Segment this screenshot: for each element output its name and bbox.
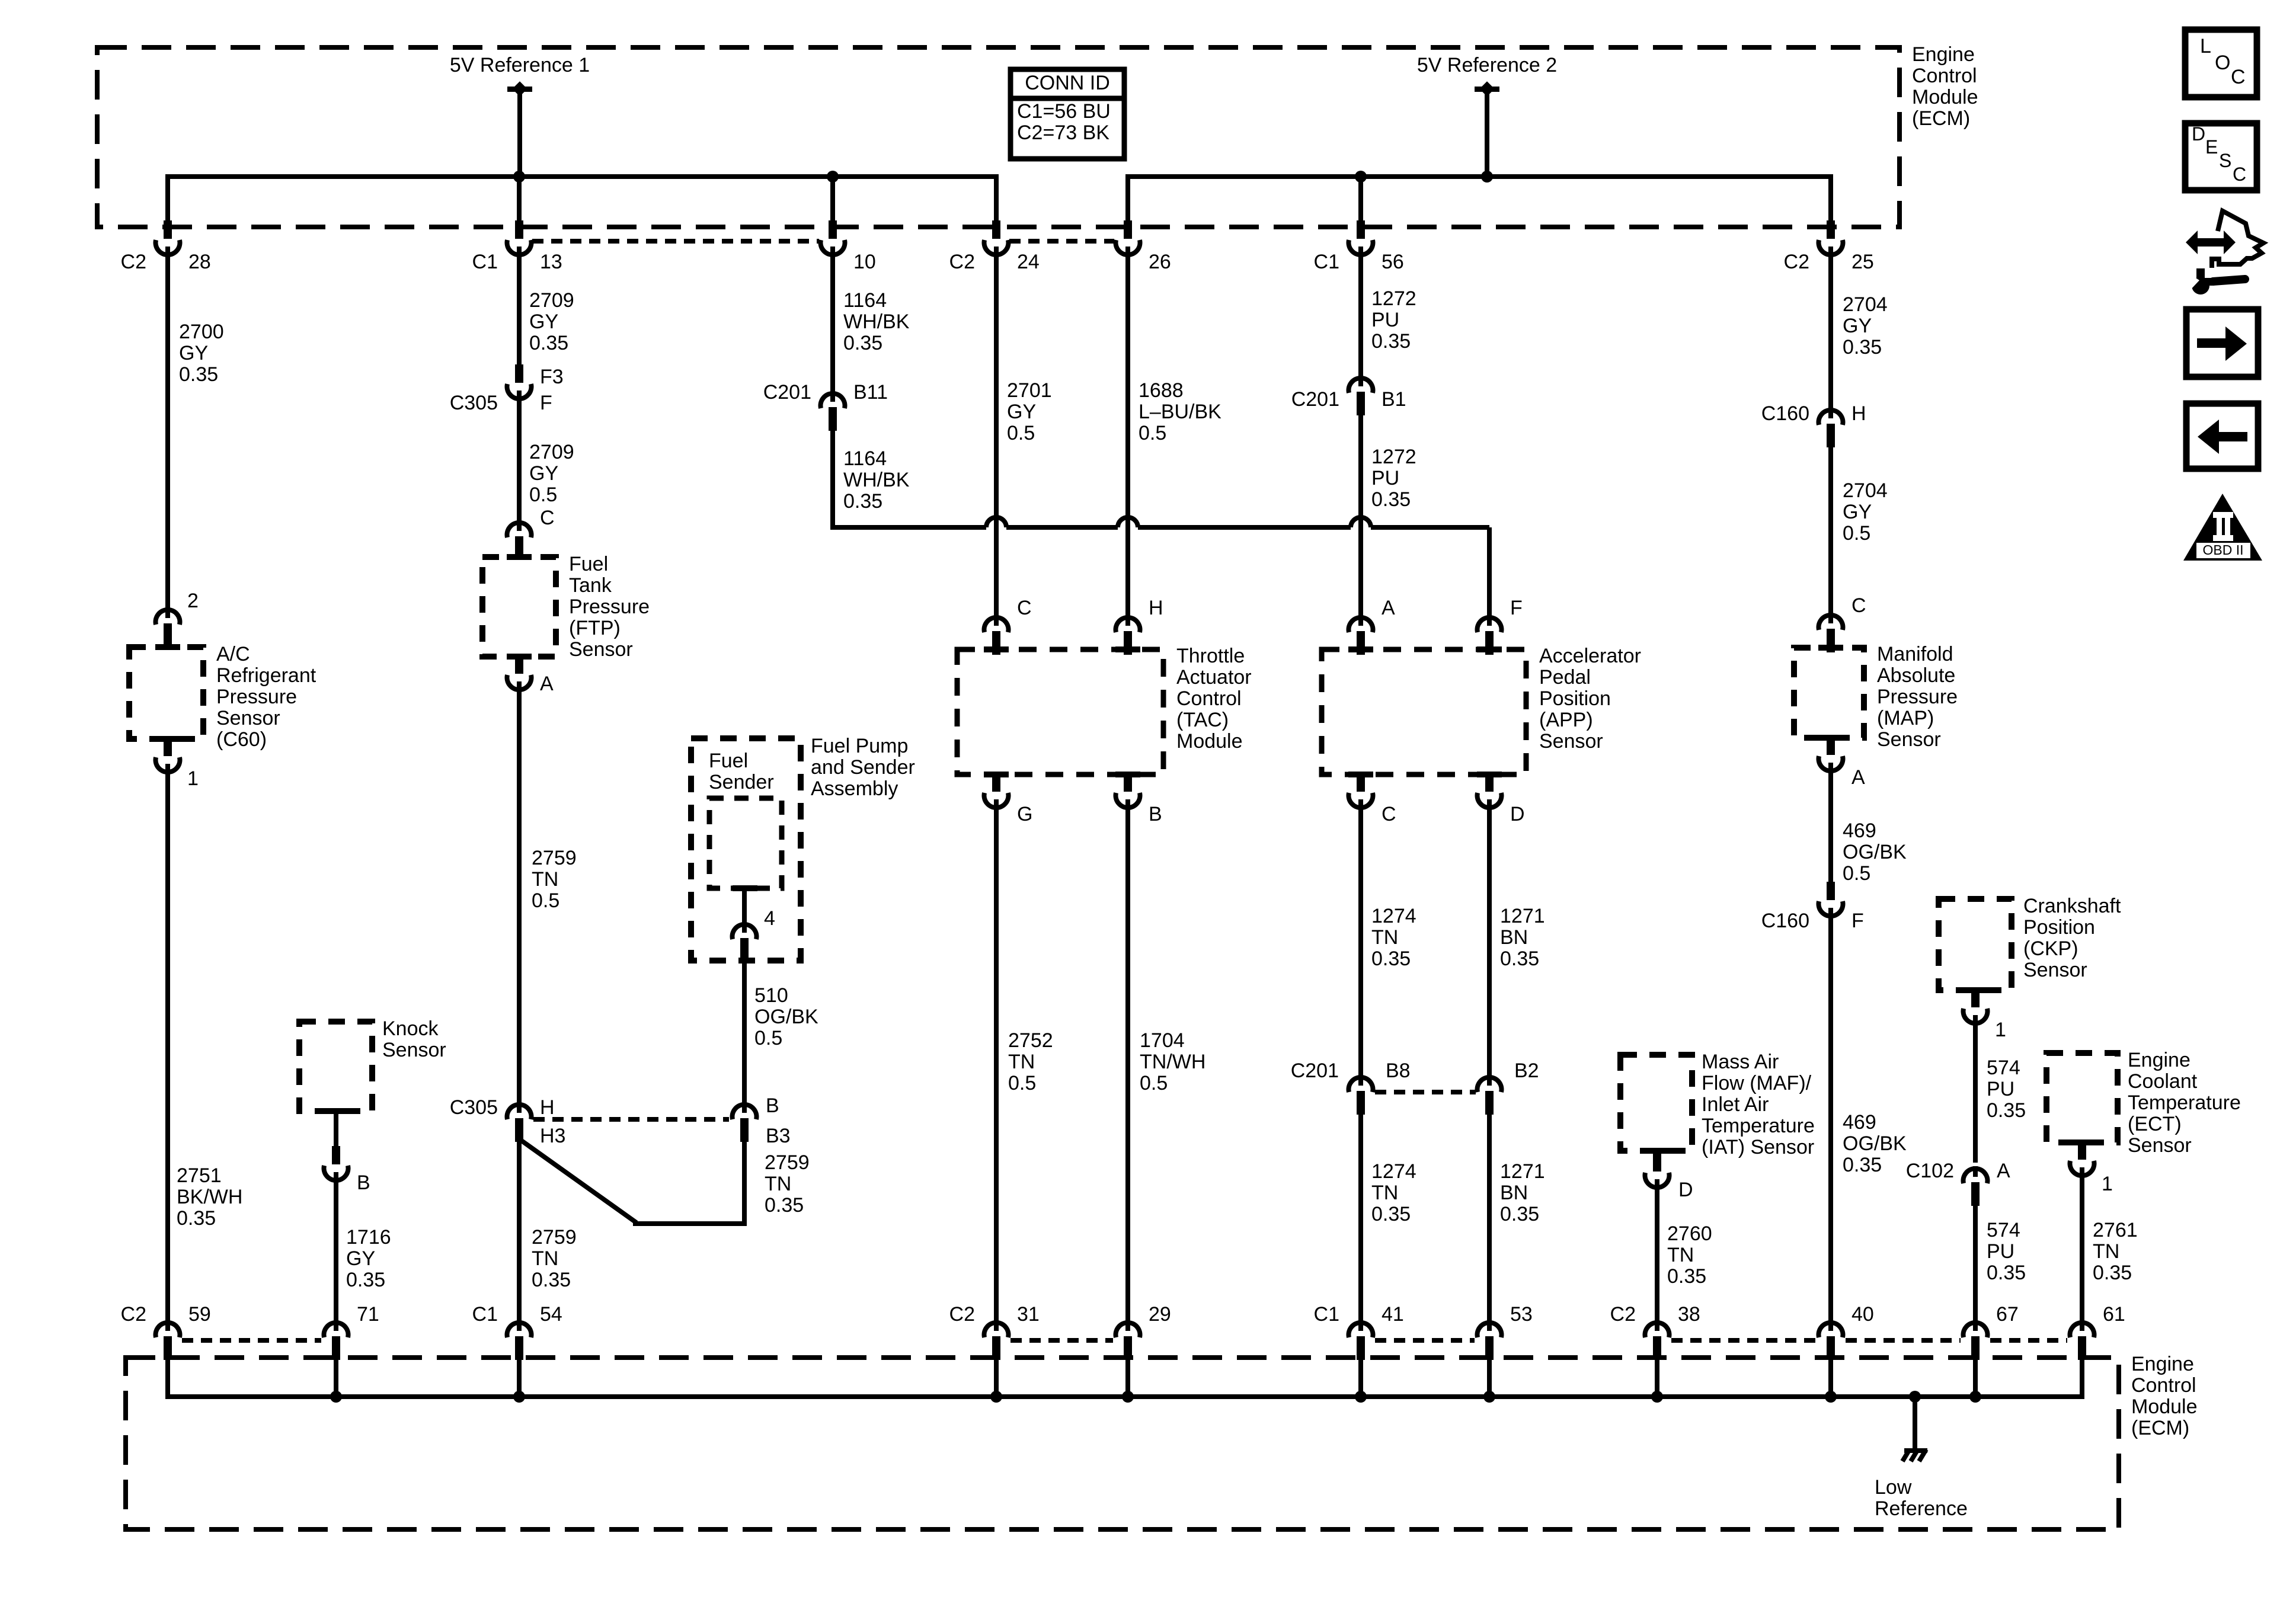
- svg-text:31: 31: [1017, 1303, 1040, 1326]
- ECM pin 61: [2070, 1303, 2125, 1397]
- svg-text:0.35: 0.35: [1667, 1265, 1706, 1288]
- ECM pin 10: [821, 220, 876, 273]
- svg-text:(C60): (C60): [216, 728, 267, 751]
- wire 1704 TN/WH TAC pin B to ECM pin 29: [1125, 805, 1130, 1327]
- svg-text:D: D: [1678, 1179, 1693, 1201]
- svg-text:0.5: 0.5: [1140, 1072, 1168, 1094]
- wire 2709 GY ECM pin 13 to C305: [517, 252, 522, 369]
- svg-text:2704: 2704: [1843, 293, 1888, 316]
- svg-text:A/C: A/C: [216, 643, 250, 665]
- Fuel Sender inner box: [709, 798, 782, 891]
- svg-text:0.35: 0.35: [1371, 330, 1411, 353]
- svg-text:Reference: Reference: [1875, 1497, 1968, 1520]
- label Fuel Sender: [709, 750, 774, 793]
- svg-text:C160: C160: [1761, 910, 1809, 932]
- svg-text:TN: TN: [2093, 1240, 2119, 1263]
- label Engine Control Module (ECM) top: [1912, 43, 1978, 130]
- connector group line pins 24-26: [1009, 239, 1114, 244]
- wire 1164 WH/BK C201 to APP sensor pin F: [833, 424, 1489, 620]
- TAC module pin C: [984, 597, 1032, 655]
- svg-text:Pressure: Pressure: [569, 596, 650, 618]
- svg-text:24: 24: [1017, 251, 1040, 273]
- svg-text:D: D: [1510, 803, 1525, 825]
- svg-text:(FTP): (FTP): [569, 617, 621, 639]
- wire knock sensor to pin B: [334, 1111, 338, 1153]
- wire bus to ECM pin: [165, 177, 170, 224]
- node 5V Reference 2: [1417, 54, 1557, 97]
- svg-text:E: E: [2205, 136, 2218, 158]
- wire 1274 TN APP pin C to C201 B8: [1358, 805, 1363, 1077]
- svg-text:TN: TN: [532, 1247, 558, 1270]
- svg-text:510: 510: [754, 984, 788, 1007]
- svg-text:OG/BK: OG/BK: [754, 1006, 818, 1028]
- svg-text:0.35: 0.35: [532, 1269, 571, 1291]
- label wire 510 OG/BK 0.5: [754, 984, 818, 1049]
- svg-text:Engine: Engine: [1912, 43, 1975, 66]
- wire branch H3 to fuel sender B3 (diagonal): [522, 1137, 744, 1224]
- svg-text:C2=73 BK: C2=73 BK: [1017, 121, 1109, 144]
- svg-text:0.35: 0.35: [1843, 1154, 1882, 1176]
- wire 2704 GY C160 to MAP pin C: [1828, 440, 1833, 618]
- wire fuel sender to pin 4: [742, 888, 747, 926]
- label wire 1271 BN 0.35 (upper): [1500, 905, 1545, 970]
- label wire 2759 TN 0.5: [532, 847, 577, 912]
- svg-text:A: A: [1851, 766, 1865, 789]
- svg-text:Module: Module: [1912, 86, 1978, 108]
- svg-text:C201: C201: [1291, 388, 1339, 411]
- svg-text:0.35: 0.35: [2093, 1262, 2132, 1284]
- svg-text:1274: 1274: [1371, 1160, 1416, 1183]
- label wire 574 PU 0.35 (lower): [1987, 1219, 2026, 1284]
- label wire 2759 TN 0.35 (fuel sender branch): [765, 1151, 810, 1217]
- ECM pin 71: [324, 1303, 379, 1397]
- label wire 1271 BN 0.35 (lower): [1500, 1160, 1545, 1225]
- svg-text:C1: C1: [1314, 1303, 1339, 1326]
- icon LOC box: [2185, 30, 2257, 97]
- Crankshaft Position (CKP) Sensor box: [1939, 899, 2012, 993]
- svg-text:O: O: [2215, 52, 2230, 74]
- svg-text:40: 40: [1851, 1303, 1874, 1326]
- connector group line pins 41-53: [1375, 1338, 1475, 1343]
- svg-text:C2: C2: [949, 1303, 975, 1326]
- svg-text:53: 53: [1510, 1303, 1533, 1326]
- svg-text:574: 574: [1987, 1057, 2020, 1079]
- CONN ID table box: [1011, 69, 1124, 159]
- wire 2759 TN C305 H3 to ECM pin 54: [517, 1135, 522, 1327]
- svg-text:0.5: 0.5: [1139, 422, 1166, 444]
- svg-text:G: G: [1017, 803, 1032, 825]
- wire 5V reference bus 1 (pins 28-13-10-24): [168, 177, 996, 200]
- wire 2759 TN FTP sensor to C305 H: [517, 687, 522, 1103]
- junction low reference bus at pin 71: [330, 1391, 342, 1403]
- APP sensor pin D: [1477, 773, 1524, 825]
- svg-text:C2: C2: [949, 251, 975, 273]
- svg-text:Control: Control: [1912, 65, 1977, 87]
- svg-text:2760: 2760: [1667, 1222, 1712, 1245]
- wire bus to ECM pin: [1125, 177, 1130, 224]
- label Accelerator Pedal Position (APP) Sensor: [1539, 645, 1641, 753]
- junction bus1 at pin 10: [827, 171, 839, 183]
- svg-text:Throttle: Throttle: [1176, 645, 1245, 667]
- connector group line pins 38-40: [1671, 1338, 1816, 1343]
- svg-text:WH/BK: WH/BK: [843, 469, 910, 491]
- svg-text:5V Reference 2: 5V Reference 2: [1417, 54, 1557, 76]
- svg-text:OBD II: OBD II: [2202, 542, 2243, 558]
- junction low reference bus at ground stub: [1909, 1391, 1921, 1403]
- svg-text:C: C: [1382, 803, 1396, 825]
- svg-text:0.35: 0.35: [346, 1269, 385, 1291]
- Engine Coolant Temperature (ECT) Sensor box: [2046, 1053, 2118, 1145]
- svg-text:41: 41: [1382, 1303, 1404, 1326]
- wire 5V reference bus 2 (pins 26-56-25): [1128, 177, 1831, 200]
- APP sensor pin A: [1349, 597, 1396, 655]
- connector group line pins 13-10: [532, 239, 819, 244]
- node 5V Reference 1: [450, 54, 590, 97]
- label wire 2709 GY 0.35: [529, 289, 574, 354]
- svg-text:1164: 1164: [843, 447, 887, 470]
- svg-text:H: H: [540, 1096, 555, 1119]
- label A/C Refrigerant Pressure Sensor (C60): [216, 643, 316, 751]
- label wire 1274 TN 0.35 (lower): [1371, 1160, 1416, 1225]
- label wire 469 OG/BK 0.5: [1843, 820, 1907, 885]
- svg-text:C2: C2: [121, 1303, 146, 1326]
- svg-text:F: F: [1510, 597, 1523, 619]
- svg-text:(APP): (APP): [1539, 709, 1593, 731]
- label wire 1164 WH/BK 0.35 (upper): [843, 289, 910, 354]
- wire 2704 GY ECM pin 25 to C160 H: [1828, 252, 1833, 410]
- svg-text:C: C: [2233, 164, 2246, 185]
- svg-text:(ECM): (ECM): [2131, 1417, 2189, 1439]
- svg-text:Engine: Engine: [2131, 1353, 2194, 1375]
- svg-text:Sensor: Sensor: [1877, 728, 1941, 751]
- svg-text:L: L: [2200, 35, 2211, 57]
- APP sensor pin C: [1349, 773, 1396, 825]
- svg-text:Sensor: Sensor: [1539, 730, 1603, 753]
- svg-text:A: A: [1382, 597, 1395, 619]
- svg-text:54: 54: [540, 1303, 562, 1326]
- svg-text:2761: 2761: [2093, 1219, 2138, 1241]
- svg-text:2: 2: [187, 590, 199, 612]
- icon OBD II triangle: [2183, 494, 2262, 561]
- svg-text:2759: 2759: [532, 1226, 577, 1249]
- svg-text:10: 10: [853, 251, 876, 273]
- ECM pin C2-28: [121, 220, 211, 273]
- wire 1271 BN C201 B2 to ECM pin 53: [1487, 1107, 1492, 1327]
- FTP sensor pin C: [507, 507, 555, 560]
- svg-text:C160: C160: [1761, 402, 1809, 425]
- svg-text:29: 29: [1149, 1303, 1171, 1326]
- svg-text:TN/WH: TN/WH: [1140, 1051, 1205, 1073]
- svg-text:(IAT) Sensor: (IAT) Sensor: [1702, 1136, 1814, 1158]
- svg-text:Crankshaft: Crankshaft: [2023, 895, 2121, 917]
- svg-text:Module: Module: [1176, 730, 1243, 753]
- svg-text:Assembly: Assembly: [811, 777, 898, 800]
- wire bus to ECM pin: [830, 177, 835, 224]
- svg-text:Temperature: Temperature: [2128, 1092, 2241, 1114]
- wire bus to ECM pin: [1828, 177, 1833, 224]
- svg-text:TN: TN: [765, 1173, 791, 1195]
- connector group line pins 31-29: [1011, 1338, 1113, 1343]
- junction bus2 at pin 56: [1355, 171, 1367, 183]
- svg-text:2751: 2751: [177, 1164, 222, 1187]
- svg-text:GY: GY: [1843, 315, 1872, 337]
- svg-text:TN: TN: [532, 868, 558, 891]
- svg-text:C201: C201: [763, 381, 811, 404]
- svg-text:Engine: Engine: [2128, 1049, 2191, 1071]
- svg-text:WH/BK: WH/BK: [843, 311, 910, 333]
- svg-text:C102: C102: [1906, 1160, 1954, 1182]
- svg-text:(ECM): (ECM): [1912, 107, 1970, 130]
- wire 5V Reference 2 to bus: [1485, 89, 1489, 177]
- svg-text:Knock: Knock: [382, 1017, 439, 1040]
- svg-text:0.35: 0.35: [1371, 1203, 1411, 1225]
- svg-text:C: C: [540, 507, 555, 529]
- svg-text:2709: 2709: [529, 289, 574, 312]
- connector C160 pin H: [1761, 402, 1866, 447]
- svg-text:Fuel Pump: Fuel Pump: [811, 735, 908, 757]
- label wire 2709 GY 0.5: [529, 441, 574, 506]
- svg-text:BK/WH: BK/WH: [177, 1186, 242, 1208]
- svg-text:TN: TN: [1371, 926, 1398, 949]
- svg-text:Pressure: Pressure: [1877, 686, 1958, 708]
- connector group line pins 59-71: [182, 1338, 321, 1343]
- svg-text:0.35: 0.35: [1371, 488, 1411, 511]
- connector C201 pin B11: [763, 381, 888, 431]
- wire 2752 TN TAC pin G to ECM pin 31: [994, 805, 999, 1327]
- svg-text:574: 574: [1987, 1219, 2020, 1241]
- svg-text:67: 67: [1996, 1303, 2019, 1326]
- ECM pin 40: [1819, 1303, 1874, 1397]
- ECM pin 29: [1116, 1303, 1171, 1397]
- svg-text:Sensor: Sensor: [2128, 1134, 2192, 1157]
- wire 2709 GY C305 to FTP sensor: [517, 396, 522, 524]
- connector C305 pin H-H3: [450, 1096, 566, 1147]
- svg-text:Control: Control: [2131, 1374, 2196, 1397]
- junction low reference bus at pin 29: [1122, 1391, 1134, 1403]
- wire 2700 GY ECM pin 28 to A/C sensor: [165, 252, 170, 607]
- label Mass Air Flow (MAF)/ Inlet Air Temperature (IAT) Sensor: [1702, 1051, 1815, 1158]
- svg-text:TN: TN: [1371, 1182, 1398, 1204]
- svg-text:13: 13: [540, 251, 562, 273]
- svg-text:0.35: 0.35: [843, 490, 882, 513]
- svg-text:0.35: 0.35: [1500, 948, 1539, 970]
- ECM pin C1-13: [472, 220, 562, 273]
- svg-text:(CKP): (CKP): [2023, 937, 2078, 960]
- svg-text:469: 469: [1843, 1111, 1876, 1134]
- svg-text:0.35: 0.35: [1987, 1262, 2026, 1284]
- wire ground stub: [1913, 1397, 1917, 1451]
- label wire 1272 PU 0.35 (upper): [1371, 287, 1416, 353]
- connector C160 pin F: [1761, 882, 1864, 932]
- svg-text:(ECT): (ECT): [2128, 1113, 2182, 1135]
- svg-text:1: 1: [187, 767, 199, 790]
- svg-text:B1: B1: [1382, 388, 1406, 411]
- svg-text:2759: 2759: [765, 1151, 810, 1174]
- connector C102 pin A: [1906, 1160, 2010, 1206]
- svg-text:B: B: [766, 1094, 779, 1117]
- Accelerator Pedal Position (APP) Sensor box: [1322, 646, 1526, 777]
- svg-text:C305: C305: [450, 392, 498, 414]
- svg-text:1688: 1688: [1139, 379, 1184, 402]
- svg-text:0.5: 0.5: [754, 1027, 782, 1049]
- label Fuel Tank Pressure (FTP) Sensor: [569, 553, 650, 661]
- label wire 1688 L-BU/BK 0.5: [1139, 379, 1221, 444]
- svg-text:H: H: [1149, 597, 1163, 619]
- svg-text:Flow (MAF)/: Flow (MAF)/: [1702, 1072, 1812, 1094]
- svg-text:OG/BK: OG/BK: [1843, 841, 1907, 863]
- wire 1271 BN APP pin D to C201 B2: [1487, 805, 1492, 1077]
- svg-text:0.35: 0.35: [177, 1207, 216, 1230]
- svg-text:Position: Position: [2023, 916, 2095, 939]
- wire bus to ECM pin: [517, 177, 522, 224]
- junction low reference bus at pin 67: [1969, 1391, 1981, 1403]
- svg-text:Pedal: Pedal: [1539, 666, 1591, 689]
- wire 469 OG/BK C160 F to ECM pin 40: [1828, 913, 1833, 1327]
- label Throttle Actuator Control (TAC) Module: [1176, 645, 1252, 753]
- label wire 574 PU 0.35 (upper): [1987, 1057, 2026, 1122]
- connector C305 pin B-B3: [733, 1094, 791, 1147]
- wire 1272 PU C201 B1 to APP pin A: [1358, 409, 1363, 620]
- A/C sensor pin 2: [156, 590, 199, 647]
- svg-text:59: 59: [188, 1303, 211, 1326]
- label wire 2761 TN 0.35: [2093, 1219, 2138, 1284]
- svg-text:GY: GY: [529, 311, 558, 333]
- ECM pin C2-25: [1784, 220, 1874, 273]
- svg-text:Control: Control: [1176, 687, 1242, 710]
- Knock sensor pin B: [324, 1146, 370, 1194]
- label Fuel Pump and Sender Assembly: [811, 735, 915, 800]
- ECM pin C1-56: [1314, 220, 1404, 273]
- svg-text:0.5: 0.5: [1007, 422, 1035, 444]
- ECM pin 67: [1964, 1303, 2019, 1397]
- wire hop over pin-56 branch: [1351, 517, 1371, 527]
- svg-text:0.5: 0.5: [529, 484, 557, 506]
- svg-text:0.35: 0.35: [1843, 336, 1882, 359]
- svg-text:and Sender: and Sender: [811, 756, 915, 779]
- wire 2760 TN MAF sensor to ECM pin 38: [1655, 1185, 1659, 1327]
- svg-text:Position: Position: [1539, 687, 1611, 710]
- ECM pin C2-38: [1610, 1303, 1700, 1397]
- junction low reference bus at pin 40: [1825, 1391, 1837, 1403]
- label wire 2700 GY 0.35: [179, 321, 224, 386]
- svg-text:C1: C1: [1314, 251, 1339, 273]
- wire 1164 WH/BK ECM pin 10 to C201 B11: [830, 252, 835, 392]
- wire bus to ECM pin: [994, 177, 999, 224]
- svg-text:2752: 2752: [1008, 1029, 1053, 1052]
- wire 510 OG/BK fuel sender pin 4 to C305 B: [742, 951, 747, 1103]
- svg-text:1271: 1271: [1500, 1160, 1545, 1183]
- connector group line C305 H-B: [533, 1117, 729, 1122]
- wire 2701 GY ECM pin 24 to TAC pin C: [994, 252, 999, 620]
- icon DESC box: [2185, 123, 2257, 190]
- junction low reference bus at pin 54: [513, 1391, 525, 1403]
- wire 574 PU C102 to ECM pin 67: [1973, 1199, 1978, 1327]
- svg-text:B3: B3: [766, 1125, 791, 1147]
- label Low Reference: [1875, 1476, 1968, 1520]
- svg-text:GY: GY: [1007, 401, 1036, 423]
- svg-text:C: C: [2231, 66, 2246, 88]
- svg-text:Mass Air: Mass Air: [1702, 1051, 1779, 1073]
- junction low reference bus at pin 53: [1483, 1391, 1495, 1403]
- svg-text:2701: 2701: [1007, 379, 1052, 402]
- svg-text:TN: TN: [1667, 1244, 1694, 1266]
- ECM pin C2-24: [949, 220, 1040, 273]
- ECM pin C2-31: [949, 1303, 1040, 1397]
- svg-text:1716: 1716: [346, 1226, 391, 1249]
- svg-text:B: B: [1149, 803, 1162, 825]
- connector C201 pin B8: [1291, 1060, 1411, 1115]
- ECM pin 53: [1477, 1303, 1532, 1397]
- svg-text:Accelerator: Accelerator: [1539, 645, 1641, 667]
- wire 2751 BK/WH A/C sensor to ECM pin 59: [165, 770, 170, 1327]
- svg-text:CONN ID: CONN ID: [1025, 72, 1110, 94]
- svg-text:L–BU/BK: L–BU/BK: [1139, 401, 1221, 423]
- wire 1272 PU ECM pin 56 to C201 B1: [1358, 252, 1363, 377]
- svg-text:A: A: [540, 673, 554, 695]
- svg-text:C: C: [1017, 597, 1032, 619]
- connector group line pins 67-61: [1990, 1338, 2067, 1343]
- svg-text:Low: Low: [1875, 1476, 1912, 1499]
- svg-text:2759: 2759: [532, 847, 577, 869]
- svg-text:Absolute: Absolute: [1877, 664, 1955, 687]
- svg-text:TN: TN: [1008, 1051, 1035, 1073]
- junction low reference bus at pin 31: [990, 1391, 1002, 1403]
- svg-text:5V Reference 1: 5V Reference 1: [450, 54, 590, 76]
- svg-text:PU: PU: [1987, 1240, 2014, 1263]
- connector group line pins 40-67: [1846, 1338, 1961, 1343]
- ECT sensor pin 1: [2070, 1141, 2113, 1195]
- label Engine Coolant Temperature (ECT) Sensor: [2128, 1049, 2241, 1157]
- svg-text:D: D: [2192, 123, 2205, 145]
- A/C Refrigerant Pressure Sensor (C60) box: [129, 644, 203, 742]
- svg-text:H3: H3: [540, 1125, 565, 1147]
- svg-text:OG/BK: OG/BK: [1843, 1132, 1907, 1155]
- svg-text:C1: C1: [472, 1303, 498, 1326]
- connector C305 pin F3-F: [450, 364, 564, 414]
- svg-text:56: 56: [1382, 251, 1404, 273]
- svg-text:Pressure: Pressure: [216, 686, 297, 708]
- svg-text:Temperature: Temperature: [1702, 1115, 1815, 1137]
- wire hop over pin-24 branch: [986, 517, 1006, 527]
- svg-text:B2: B2: [1514, 1060, 1539, 1082]
- svg-text:F3: F3: [540, 366, 564, 388]
- svg-text:Sensor: Sensor: [569, 638, 633, 661]
- wire 1274 TN C201 B8 to ECM pin 41: [1358, 1107, 1363, 1327]
- ECM pin C1-54: [472, 1303, 562, 1397]
- svg-text:Coolant: Coolant: [2128, 1070, 2198, 1093]
- label wire 2759 TN 0.35 (pin 54): [532, 1226, 577, 1291]
- svg-text:26: 26: [1149, 251, 1171, 273]
- svg-text:B: B: [357, 1172, 370, 1194]
- svg-text:2709: 2709: [529, 441, 574, 463]
- icon back arrow box: [2186, 404, 2258, 469]
- wire hop over pin-26 branch: [1118, 517, 1138, 527]
- wire low reference bus: [168, 1381, 2082, 1397]
- svg-text:38: 38: [1678, 1303, 1700, 1326]
- ECM (Engine Control Module) top dashed box: [97, 47, 1900, 227]
- svg-text:C201: C201: [1291, 1060, 1339, 1082]
- junction bus2 at pin 25: [1481, 171, 1493, 183]
- label wire 2701 GY 0.5: [1007, 379, 1052, 444]
- junction bus1 at pin 13: [513, 171, 525, 183]
- svg-text:C2: C2: [121, 251, 146, 273]
- svg-text:0.35: 0.35: [179, 363, 218, 386]
- label Knock Sensor: [382, 1017, 446, 1061]
- svg-text:Actuator: Actuator: [1176, 666, 1252, 689]
- svg-text:0.5: 0.5: [1843, 862, 1870, 885]
- svg-text:469: 469: [1843, 820, 1876, 842]
- label wire 469 OG/BK 0.35: [1843, 1111, 1907, 1176]
